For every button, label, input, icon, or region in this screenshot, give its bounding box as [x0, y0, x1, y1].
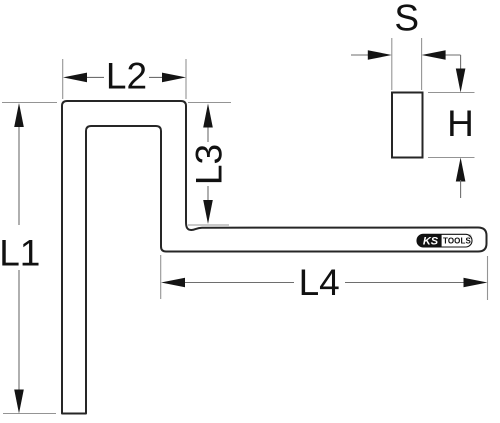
extension line L3 top — [188, 102, 231, 104]
dimension line H lower tail — [460, 180, 462, 198]
svg-text:S: S — [394, 0, 419, 39]
svg-text:TOOLS: TOOLS — [443, 236, 471, 245]
svg-text:®: ® — [469, 235, 472, 239]
extension line S right — [421, 38, 423, 90]
dimension line L3 — [207, 126, 209, 200]
svg-text:H: H — [447, 103, 474, 144]
dimension line L2 — [85, 76, 164, 78]
arrowhead L1 up — [14, 103, 24, 127]
extension line L3 bottom — [188, 224, 229, 226]
dimension line H upper tail — [460, 55, 462, 70]
arrowhead S right (points left) — [422, 50, 446, 60]
extension line L4 right — [487, 256, 489, 300]
svg-text:L2: L2 — [106, 56, 147, 97]
arrowhead H up — [456, 158, 466, 182]
svg-text:KS: KS — [423, 235, 439, 247]
arrowhead L3 down — [203, 200, 213, 224]
extension line S left — [391, 38, 393, 90]
dimension line L4 — [184, 282, 465, 284]
extension line L4 left — [160, 255, 162, 299]
dimension line S left tail — [351, 54, 369, 56]
KS TOOLS logo pill — [417, 234, 472, 247]
arrowhead L4 right — [464, 278, 488, 288]
arrowhead L2 right — [162, 73, 186, 83]
svg-text:L1: L1 — [0, 232, 40, 273]
dimension line L1 — [18, 110, 20, 408]
arrowhead L2 left — [63, 73, 87, 83]
arrowhead L1 down — [14, 390, 24, 414]
reference line H bottom — [428, 157, 475, 159]
extension line L1 bottom — [3, 413, 56, 415]
cross-section rectangle — [392, 93, 423, 158]
svg-text:L3: L3 — [189, 144, 230, 185]
tool outline (Z-shaped offset wrench body) — [62, 101, 487, 414]
arrowhead S left (points right) — [368, 50, 392, 60]
extension line L2 left — [62, 59, 64, 99]
extension line L2 right — [185, 59, 187, 99]
arrowhead L3 up — [203, 104, 213, 128]
dimension line S right tail — [444, 54, 461, 56]
reference line H top — [428, 92, 475, 94]
extension line L1 top — [2, 102, 57, 104]
arrowhead H down — [456, 69, 466, 93]
svg-text:L4: L4 — [299, 262, 340, 303]
arrowhead L4 left — [161, 278, 185, 288]
